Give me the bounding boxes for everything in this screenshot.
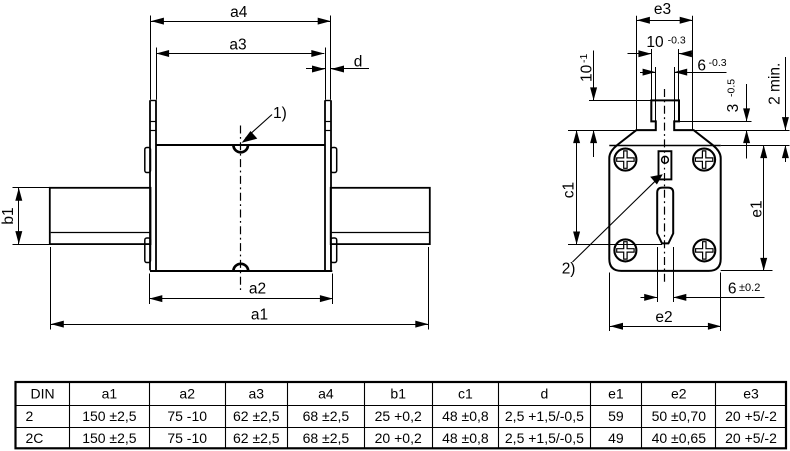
svg-text:62 ±2,5: 62 ±2,5 [233, 408, 280, 424]
indicator notch top (semicircle) [233, 145, 248, 152]
svg-text:DIN: DIN [31, 385, 55, 401]
svg-text:6: 6 [728, 280, 737, 297]
svg-text:2C: 2C [26, 430, 44, 446]
extension line slot bottom (left, c1 ref) [568, 244, 662, 246]
svg-text:c1: c1 [561, 182, 578, 198]
svg-text:150 ±2,5: 150 ±2,5 [82, 430, 137, 446]
dimension 6 +-0.2 (slot width) [641, 247, 765, 302]
svg-text:a2: a2 [249, 281, 266, 298]
dimension a1 [51, 247, 429, 330]
svg-text:±0.2: ±0.2 [739, 282, 760, 294]
svg-text:2,5 +1,5/-0,5: 2,5 +1,5/-0,5 [505, 408, 584, 424]
screw bottom-right [693, 239, 715, 261]
svg-text:2): 2) [562, 260, 576, 277]
svg-text:3: 3 [725, 104, 742, 113]
svg-text:e2: e2 [655, 309, 672, 326]
svg-text:a4: a4 [318, 385, 334, 401]
svg-text:e1: e1 [608, 385, 624, 401]
dimension a3 [156, 37, 325, 100]
svg-text:75 -10: 75 -10 [167, 408, 207, 424]
svg-text:48 ±0,8: 48 ±0,8 [442, 430, 489, 446]
svg-text:25 +0,2: 25 +0,2 [375, 408, 422, 424]
dimension a2 [149, 274, 333, 305]
svg-text:b1: b1 [0, 207, 17, 224]
extension line tab top (left) [589, 100, 651, 102]
dimension 2 min. [767, 57, 789, 162]
dimension 10 -0.3 [628, 34, 693, 100]
label 2) with leader arrow [562, 174, 663, 277]
svg-text:48 ±0,8: 48 ±0,8 [442, 408, 489, 424]
svg-text:1): 1) [273, 105, 287, 122]
svg-text:a3: a3 [249, 385, 265, 401]
svg-text:a3: a3 [229, 37, 246, 54]
svg-text:20 +5/-2: 20 +5/-2 [725, 408, 777, 424]
left contact blade (left knife contact) [50, 188, 151, 244]
left blade lug (vertical plate) [150, 100, 156, 270]
keyway slot [657, 188, 673, 244]
svg-text:e1: e1 [749, 200, 766, 217]
screw bottom-left [614, 239, 636, 261]
end view body outline [609, 100, 720, 271]
dimension d [306, 54, 369, 73]
dimension e1 [749, 145, 768, 271]
svg-text:2: 2 [26, 408, 34, 424]
screw top-right [693, 149, 715, 171]
extension line face edge (right) [721, 145, 790, 147]
dimension 3 -0.5 (step height) [725, 79, 750, 159]
svg-text:e3: e3 [743, 385, 759, 401]
extension line shoulder (right) [694, 130, 790, 132]
screw top-left [614, 149, 636, 171]
svg-text:75 -10: 75 -10 [167, 430, 207, 446]
svg-text:-1: -1 [578, 54, 590, 63]
svg-text:6: 6 [697, 58, 706, 75]
extension line body bottom (right) [721, 270, 773, 272]
svg-text:-0.3: -0.3 [709, 57, 727, 69]
dimension 10 -1 (tab height) [578, 51, 597, 158]
svg-text:2 min.: 2 min. [767, 63, 784, 105]
end view face top edge [609, 145, 720, 147]
svg-text:c1: c1 [458, 385, 473, 401]
label 1) with leader arrow [242, 105, 287, 143]
centerline end view [664, 89, 666, 284]
svg-text:2,5 +1,5/-0,5: 2,5 +1,5/-0,5 [505, 430, 584, 446]
svg-text:e3: e3 [654, 1, 671, 18]
centerline left view [240, 126, 242, 292]
svg-text:59: 59 [608, 408, 624, 424]
dimension a4 [151, 4, 331, 100]
svg-text:49: 49 [608, 430, 624, 446]
svg-text:b1: b1 [390, 385, 406, 401]
svg-text:a1: a1 [251, 306, 268, 323]
svg-text:68 ±2,5: 68 ±2,5 [303, 430, 350, 446]
svg-text:a1: a1 [102, 385, 118, 401]
right blade lug (vertical plate) [325, 100, 331, 270]
dimension table [16, 382, 787, 448]
svg-text:e2: e2 [671, 385, 687, 401]
svg-text:10: 10 [579, 64, 596, 82]
svg-text:40 ±0,65: 40 ±0,65 [652, 430, 707, 446]
indicator notch bottom (semicircle) [233, 264, 248, 271]
svg-text:50 ±0,70: 50 ±0,70 [652, 408, 707, 424]
right contact blade (right knife contact) [331, 188, 430, 244]
svg-text:10: 10 [646, 34, 664, 51]
svg-text:a4: a4 [230, 4, 248, 21]
svg-text:20 +5/-2: 20 +5/-2 [725, 430, 777, 446]
right grip lug tabs [331, 148, 337, 263]
svg-text:20 +0,2: 20 +0,2 [375, 430, 422, 446]
dimension 6 -0.3 [640, 57, 727, 121]
svg-text:68 ±2,5: 68 ±2,5 [303, 408, 350, 424]
svg-text:-0.3: -0.3 [668, 35, 686, 47]
dimension c1 [561, 130, 581, 244]
extension line shoulder (left) [568, 130, 636, 132]
svg-text:a2: a2 [179, 385, 195, 401]
left grip lug tabs [145, 148, 151, 263]
dimension e2 [610, 273, 721, 332]
extension line step (right) [679, 121, 752, 123]
svg-text:-0.5: -0.5 [726, 79, 738, 97]
dimension b1 [0, 188, 49, 245]
svg-text:d: d [354, 54, 363, 71]
svg-text:150 ±2,5: 150 ±2,5 [82, 408, 137, 424]
dimension e3 [637, 1, 693, 130]
fuse body (side view) [150, 145, 332, 271]
indicator window rectangle [659, 151, 672, 179]
svg-text:d: d [541, 385, 549, 401]
svg-text:62 ±2,5: 62 ±2,5 [233, 430, 280, 446]
